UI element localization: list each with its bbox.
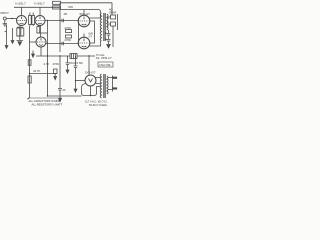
- fuse F1 (box with label): [98, 62, 113, 67]
- resistor R2 grid leak (box): [29, 16, 32, 25]
- node C11 polarity: [105, 39, 106, 40]
- capacitor C4 coupling (bars): [62, 42, 63, 45]
- node bottom rail: [47, 95, 48, 96]
- wire V1 plate stem: [21, 7, 23, 15]
- wire V4 top cap: [83, 10, 85, 16]
- node junction x47.5 lower: [47, 43, 48, 44]
- tube V2 plate: [39, 17, 41, 19]
- svg-text:½ 6SL7: ½ 6SL7: [15, 2, 26, 6]
- svg-text:5Y3-GT: 5Y3-GT: [85, 70, 96, 74]
- ground V3 cathode (arrow): [32, 54, 35, 57]
- resistor R9 (box): [54, 69, 58, 74]
- wire speaker return: [112, 26, 114, 47]
- node C7 junction: [75, 80, 76, 81]
- transformer T1 core: [104, 13, 105, 41]
- wire rectifier bottom to rail: [90, 86, 92, 96]
- wire V5 plate to OPT: [89, 41, 101, 46]
- resistor R3 plate load (box): [53, 1, 61, 4]
- wire bottom rail y=96: [48, 95, 82, 97]
- tube V1 plate: [21, 17, 23, 19]
- terminal block 2: [111, 22, 116, 26]
- svg-text:270K: 270K: [65, 38, 72, 42]
- ground C7 (arrow): [74, 89, 77, 92]
- wire B+ rail top y=2.8: [61, 2, 113, 4]
- wire feedback vertical x=47.5: [47, 21, 49, 97]
- wire B+ drop to filter caps: [111, 3, 113, 15]
- svg-text:.05: .05: [63, 12, 67, 16]
- resistor R3a V2 cathode (box): [37, 27, 40, 34]
- wire R2 stems: [30, 13, 33, 27]
- pot wiper tick: [5, 30, 7, 33]
- capacitor C5 on bus (box): [28, 76, 31, 83]
- wire V3 cathode to ground: [32, 51, 34, 55]
- node tap dots: [107, 17, 109, 19]
- resistor R7 grid (box): [66, 35, 72, 38]
- wire vertical x=60: [59, 3, 61, 52]
- wire rectifier B+ stem: [88, 56, 90, 75]
- node junction x60 upper: [59, 20, 60, 21]
- svg-text:117 V.A.C. 60 CYC.: 117 V.A.C. 60 CYC.: [85, 100, 108, 104]
- ground C8 (arrow): [59, 99, 62, 102]
- tube V6 rectifier envelope: [85, 75, 96, 86]
- wire bus hook bottom: [27, 96, 30, 99]
- ground R9 (arrow): [54, 77, 57, 80]
- wire V2 plate stem: [39, 7, 41, 15]
- wire note rule: [28, 97, 62, 99]
- wire long vertical bus x=29.5: [29, 26, 31, 96]
- node junction x47.5 upper: [47, 20, 48, 21]
- tube V2 envelope: [35, 16, 45, 26]
- terminal block 1: [111, 15, 116, 19]
- svg-text:FIL. PINS 2,7: FIL. PINS 2,7: [96, 56, 112, 60]
- tube V3 cathode: [39, 44, 43, 47]
- transformer T1 secondary (coil): [107, 14, 108, 30]
- node C10 polarity: [105, 33, 106, 34]
- svg-text:50-60 CYCLES: 50-60 CYCLES: [89, 103, 107, 107]
- wire coupling upper y=20.5: [45, 20, 79, 22]
- wire terminal feed: [108, 14, 118, 30]
- node input junction: [11, 18, 12, 19]
- wire rectifier left stub: [76, 80, 86, 82]
- ground grid return (arrow): [11, 41, 14, 44]
- resistor R6 grid (box): [66, 30, 72, 33]
- tube V4 envelope (output upper): [78, 15, 90, 27]
- tube V1 cathode: [20, 22, 24, 25]
- tube V5 grid: [80, 42, 89, 44]
- resistor R4 plate load (box): [53, 6, 61, 9]
- wire V4 plate to OPT: [89, 14, 101, 18]
- wire R9 to ground: [54, 74, 56, 77]
- choke L1 (box): [70, 54, 77, 59]
- wire cathode network to ground: [17, 36, 23, 40]
- tube V5 plate: [83, 39, 85, 42]
- wire V3 grid feed: [30, 41, 37, 43]
- wire cathode bracket: [17, 26, 23, 28]
- tube V3 envelope (lower driver): [36, 37, 46, 47]
- capacitor C1 bypass (box): [21, 28, 24, 36]
- capacitor C11 filter (plates): [107, 39, 111, 44]
- node rail junctions: [47, 55, 48, 56]
- capacitor C6 filter: [66, 56, 70, 70]
- resistor R8a on bus (box): [28, 60, 31, 66]
- tube V3 grid: [37, 41, 45, 43]
- wire V5 top stem: [83, 34, 85, 38]
- svg-text:44.7K: 44.7K: [33, 69, 40, 73]
- tube V4 cathode: [82, 23, 87, 26]
- wire B+ rail upper-left y=7.3: [14, 6, 60, 8]
- wire V1 cathode stem: [19, 26, 21, 28]
- svg-text:SPKR: SPKR: [109, 10, 116, 14]
- input jack J1: [3, 17, 6, 20]
- tube V4 plate: [83, 17, 85, 20]
- capacitor C7 filter: [74, 56, 78, 89]
- svg-text:270K: 270K: [65, 26, 72, 30]
- tube V4 grid: [80, 20, 89, 22]
- ground cathode (arrow): [18, 42, 21, 45]
- transformer T1 output primary (coil): [100, 13, 101, 41]
- svg-text:47K: 47K: [68, 5, 73, 9]
- transformer T2 core: [104, 74, 105, 98]
- wire V1 grid return: [12, 28, 14, 40]
- wire V2 cathode stem: [37, 26, 39, 27]
- svg-text:INPUT: INPUT: [1, 11, 10, 15]
- wire V3 cathode down: [40, 47, 42, 56]
- transformer T2 power secondary (coil): [100, 74, 101, 98]
- wire HV taps to transformer: [95, 78, 101, 84]
- node tap: [29, 73, 30, 74]
- ground C6 (arrow): [66, 70, 69, 73]
- svg-text:ALL RESISTORS ½ WATT: ALL RESISTORS ½ WATT: [32, 103, 63, 107]
- wire screen divider down: [59, 56, 61, 84]
- wire input to V1 grid: [6, 18, 16, 20]
- wire feedback tap y=73.5: [30, 73, 58, 75]
- tube V5 cathode: [82, 45, 87, 48]
- resistor R1 cathode (box): [17, 28, 20, 36]
- tube V5 envelope (output lower): [78, 37, 90, 49]
- svg-text:ON-OFF SW: ON-OFF SW: [69, 62, 83, 65]
- wire jack to ground: [4, 20, 6, 24]
- tube V2 cathode: [38, 22, 42, 25]
- AC plug P1: [112, 76, 114, 92]
- tube V3 plate: [40, 38, 42, 40]
- tube V1 grid: [18, 20, 26, 22]
- capacitor C3 coupling (bars): [62, 19, 63, 22]
- svg-text:4.7K: 4.7K: [44, 62, 50, 66]
- capacitor plates: [17, 40, 24, 41]
- wire mid rail y=56: [36, 55, 95, 57]
- wire AC leads: [108, 78, 113, 90]
- tube V1 envelope: [17, 16, 27, 26]
- ground input (bars): [3, 23, 7, 25]
- svg-text:470K: 470K: [53, 62, 60, 66]
- wire coupling lower y=43.5: [46, 43, 79, 45]
- capacitor C2a (box): [32, 16, 35, 25]
- node loop junction: [90, 95, 91, 96]
- ground pot (arrow): [5, 46, 8, 49]
- transformer T2 primary (coil): [107, 76, 108, 94]
- node junction x60 lower: [59, 43, 60, 44]
- capacitor C10 filter (plates): [107, 30, 111, 39]
- wire volume pot body: [6, 25, 8, 46]
- wire cathode tap to bus: [38, 32, 47, 34]
- svg-text:ALL CAPACITORS IN MFD: ALL CAPACITORS IN MFD: [29, 99, 61, 103]
- svg-text:0.5A FUSE: 0.5A FUSE: [99, 64, 111, 67]
- wire screen bus: [90, 21, 95, 43]
- wire screen rail y=9.5: [60, 10, 101, 14]
- svg-text:GT: GT: [89, 35, 93, 38]
- wire filament loop: [82, 84, 101, 96]
- svg-text:½ 6SL7: ½ 6SL7: [34, 2, 45, 6]
- wire V2 to V3 link: [40, 26, 42, 38]
- ground filter caps (arrow): [107, 45, 111, 48]
- tube V2 grid: [36, 20, 44, 22]
- wire grid bus x=78.5: [78, 18, 80, 46]
- tube V6 filament: [89, 79, 93, 83]
- capacitor C8 (plates): [58, 84, 62, 98]
